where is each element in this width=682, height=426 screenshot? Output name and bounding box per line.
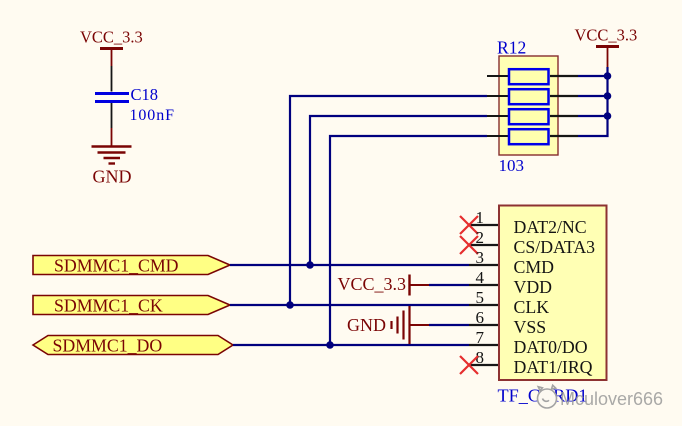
resistor R12-C xyxy=(487,109,578,124)
power symbol VCC_3.3 (top-left) xyxy=(80,28,143,67)
capacitor C18 100nF xyxy=(95,85,175,124)
pin 7 DAT0/DO xyxy=(469,328,588,357)
svg-text:6: 6 xyxy=(476,308,485,327)
wire (SDMMC1_CK to pin 5) xyxy=(230,304,469,306)
svg-text:SDMMC1_CK: SDMMC1_CK xyxy=(54,296,163,316)
wire (R12-C to SDMMC1_CMD) xyxy=(310,116,487,265)
watermark logo xyxy=(538,385,557,408)
no-connect X pin 1 xyxy=(460,216,478,234)
svg-text:103: 103 xyxy=(499,156,525,175)
ground GND (at pin 6 VSS) xyxy=(347,306,429,344)
wire (C18 pin to GND) xyxy=(111,103,113,128)
pin 2 CS/DATA3 xyxy=(469,228,595,257)
svg-text:GND: GND xyxy=(347,315,386,335)
pin 4 VDD xyxy=(469,268,552,297)
wire (R12-D to SDMMC1_DO) xyxy=(330,136,487,345)
svg-text:DAT1/IRQ: DAT1/IRQ xyxy=(514,357,593,377)
svg-text:VDD: VDD xyxy=(514,277,553,297)
net label SDMMC1_DO (bidirectional) xyxy=(33,336,233,356)
svg-text:DAT0/DO: DAT0/DO xyxy=(514,337,588,357)
no-connect X pin 8 xyxy=(460,356,478,374)
pin 3 CMD xyxy=(469,248,554,277)
junction (VCC rail / pin2) xyxy=(604,92,612,100)
wire (VCC to C18 pin) xyxy=(111,66,113,92)
svg-text:7: 7 xyxy=(476,328,485,347)
wire (R12-B to SDMMC1_CK) xyxy=(290,96,487,305)
resistor pack R12 103 xyxy=(497,38,558,176)
junction (VCC rail / pin3) xyxy=(604,112,612,120)
pin 5 CLK xyxy=(469,288,549,317)
svg-text:SDMMC1_CMD: SDMMC1_CMD xyxy=(54,256,179,276)
wire (GND to pin 6) xyxy=(429,324,469,326)
svg-text:CLK: CLK xyxy=(514,297,550,317)
svg-text:VCC_3.3: VCC_3.3 xyxy=(575,26,638,45)
svg-text:3: 3 xyxy=(476,248,485,267)
wire (VCC to pin 4) xyxy=(429,284,469,286)
resistor R12-D xyxy=(487,129,578,144)
svg-text:C18: C18 xyxy=(131,85,159,104)
wire (SDMMC1_CMD to pin 3) xyxy=(230,264,469,266)
svg-text:Mculover666: Mculover666 xyxy=(560,389,663,409)
resistor R12-B xyxy=(487,89,578,104)
junction (VCC rail / pin1) xyxy=(604,72,612,80)
wire (R12 right pins to VCC rail) xyxy=(578,67,608,136)
svg-text:VCC_3.3: VCC_3.3 xyxy=(80,28,143,47)
net label SDMMC1_CK xyxy=(33,296,230,316)
junction (DO / R12-D) xyxy=(326,341,334,349)
no-connect X pin 2 xyxy=(460,236,478,254)
pin 6 VSS xyxy=(469,308,546,337)
svg-text:100nF: 100nF xyxy=(130,107,175,124)
wire (SDMMC1_DO to pin 7) xyxy=(233,344,469,346)
ground GND (below C18) xyxy=(92,128,132,187)
junction (CMD / R12-C) xyxy=(306,261,314,269)
svg-text:SDMMC1_DO: SDMMC1_DO xyxy=(53,336,163,356)
pin 1 DAT2/NC xyxy=(469,208,587,237)
svg-text:CMD: CMD xyxy=(514,257,555,277)
power symbol VCC_3.3 (top-right) xyxy=(575,26,638,68)
svg-text:5: 5 xyxy=(476,288,485,307)
net label SDMMC1_CMD xyxy=(33,256,230,276)
IC TF_CARD1 body xyxy=(498,206,607,406)
svg-text:CS/DATA3: CS/DATA3 xyxy=(514,237,596,257)
junction (CK / R12-B) xyxy=(286,301,294,309)
svg-text:VCC_3.3: VCC_3.3 xyxy=(337,274,406,294)
power symbol VCC_3.3 (at pin 4 VDD) xyxy=(337,274,429,296)
svg-text:DAT2/NC: DAT2/NC xyxy=(514,217,587,237)
svg-text:R12: R12 xyxy=(497,38,526,58)
resistor R12-A xyxy=(487,69,578,84)
svg-text:GND: GND xyxy=(93,167,132,187)
svg-text:VSS: VSS xyxy=(514,317,547,337)
svg-text:4: 4 xyxy=(476,268,485,287)
pin 8 DAT1/IRQ xyxy=(469,348,593,377)
